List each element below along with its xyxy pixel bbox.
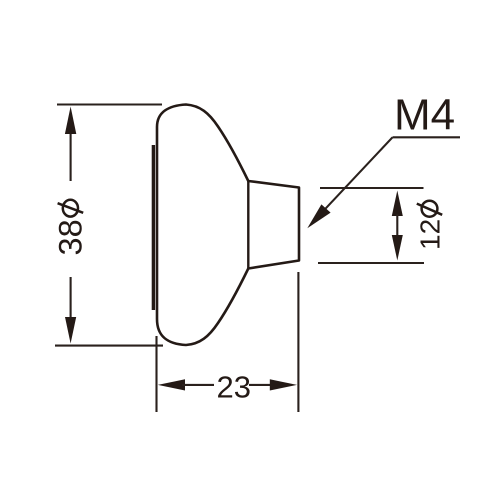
12-phi dimension line shaft — [396, 214, 398, 237]
38-phi dimension line upper shaft — [70, 126, 72, 181]
38-phi dimension line lower shaft — [70, 277, 72, 324]
12-phi bottom extension line — [318, 262, 424, 264]
38-phi up arrowhead — [65, 107, 76, 135]
svg-text:12: 12 — [415, 219, 446, 250]
38-phi bottom extension line — [55, 345, 163, 347]
12-phi up arrowhead — [392, 191, 403, 217]
38-phi down arrowhead — [65, 317, 76, 344]
12-phi down arrowhead — [392, 235, 403, 261]
svg-text:M4: M4 — [394, 91, 455, 140]
svg-text:23: 23 — [217, 370, 251, 405]
23 left extension line — [155, 336, 157, 412]
23 right extension line — [297, 272, 299, 412]
12-phi text digits — [415, 219, 446, 250]
M4 leader diagonal segment — [315, 137, 393, 220]
12-phi phi slash — [417, 204, 442, 215]
knob body outline — [157, 105, 299, 346]
23 right arrowhead — [270, 379, 297, 390]
12-phi phi ellipse — [422, 201, 438, 217]
12-phi top extension line — [320, 187, 424, 189]
38-phi phi ellipse — [63, 200, 78, 217]
23 dimension line right shaft — [249, 384, 273, 386]
M4 leader arrowhead — [307, 204, 330, 228]
flange edge thick line — [152, 145, 155, 310]
38-phi text digits — [53, 219, 89, 255]
svg-text:38: 38 — [53, 219, 89, 255]
38-phi top extension line — [57, 103, 162, 105]
23 left arrowhead — [158, 379, 185, 390]
stem left edge — [247, 181, 249, 269]
38-phi phi slash — [58, 203, 84, 213]
M4 leader horizontal segment — [393, 136, 461, 138]
23 dimension line left shaft — [182, 384, 214, 386]
